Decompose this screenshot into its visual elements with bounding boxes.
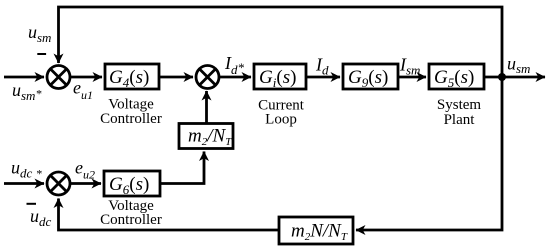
svg-text:Controller: Controller (100, 212, 162, 228)
svg-text:Gi(s): Gi(s) (259, 67, 296, 90)
svg-text:Loop: Loop (265, 112, 297, 128)
svg-text:Ism: Ism (399, 55, 420, 78)
svg-text:Id*: Id* (224, 53, 245, 77)
svg-text:G5(s): G5(s) (434, 67, 474, 90)
svg-text:usm*: usm* (12, 80, 41, 103)
svg-text:udc*: udc* (11, 158, 42, 181)
svg-text:usm: usm (507, 54, 530, 77)
svg-text:G4(s): G4(s) (109, 67, 149, 90)
svg-text:System: System (437, 97, 482, 113)
svg-text:Id: Id (315, 55, 329, 78)
svg-text:G6(s): G6(s) (109, 174, 149, 197)
svg-text:Controller: Controller (100, 111, 162, 127)
svg-text:m2N/NT: m2N/NT (291, 221, 348, 244)
svg-text:G9(s): G9(s) (348, 67, 388, 90)
svg-text:eu1: eu1 (73, 78, 93, 103)
svg-text:eu2: eu2 (75, 158, 95, 182)
svg-text:Plant: Plant (444, 112, 476, 128)
svg-text:m2/NT: m2/NT (188, 126, 232, 149)
svg-text:usm: usm (28, 22, 51, 45)
svg-text:udc: udc (30, 206, 52, 229)
